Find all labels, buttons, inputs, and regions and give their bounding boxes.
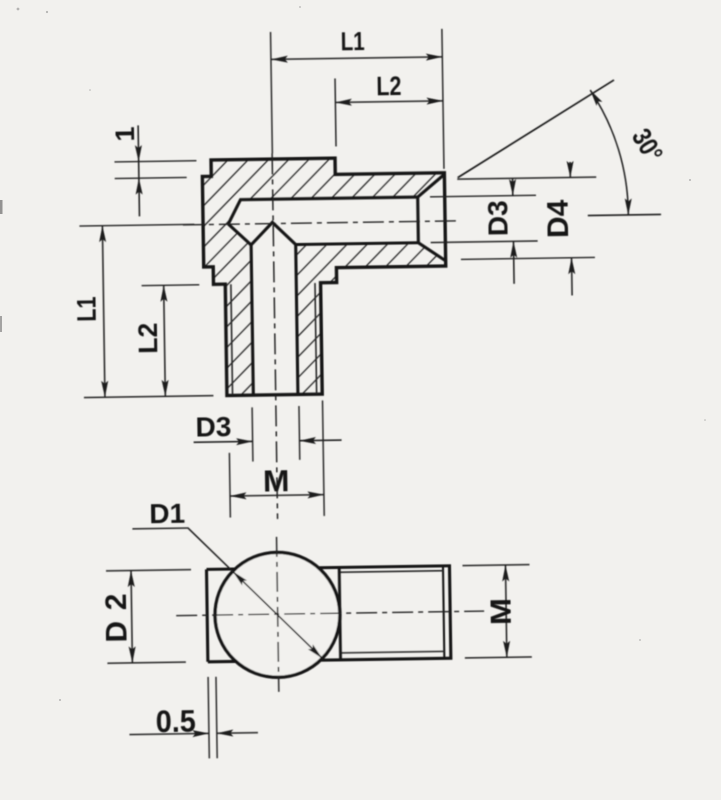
svg-text:1: 1 (110, 126, 140, 141)
vertical centerline upper view (271, 32, 273, 153)
dimension D2 vertical left lower (106, 570, 191, 571)
horizontal centerline lower view (176, 611, 484, 616)
dimension L1 vertical left (79, 224, 194, 226)
dimension L2 vertical left (142, 284, 200, 287)
elbow fitting body outer profile (section view) (202, 157, 447, 396)
dimension D4 vertical right (countersink) (457, 177, 596, 179)
dimension M horizontal below leg (thread) (228, 453, 231, 518)
svg-text:D4: D4 (541, 199, 575, 238)
30 degree horizontal reference line (588, 214, 661, 215)
vertical centerline lower view (277, 537, 279, 692)
lower view body cylinder outline (207, 566, 451, 662)
30 degree seat angle line (456, 80, 615, 178)
vertical bore with drill cone peak (251, 222, 298, 395)
thread minor diameter lines (339, 571, 443, 573)
svg-text:M: M (263, 463, 290, 498)
horizontal centerline upper view (183, 221, 460, 225)
dimension L2 horizontal top (335, 78, 336, 146)
dimension D3 vertical right (bore) (430, 195, 536, 197)
svg-text:D3: D3 (482, 200, 514, 236)
scan speckles (17, 8, 20, 11)
dimension 0.5 bottom left (208, 677, 209, 758)
svg-text:L1: L1 (71, 296, 101, 321)
svg-text:0.5: 0.5 (155, 703, 196, 740)
30 degree dimension arc (590, 90, 628, 216)
svg-text:L2: L2 (133, 323, 163, 354)
external thread minor lines on lower leg (231, 283, 317, 395)
ball sphere circle (214, 552, 341, 679)
svg-text:L2: L2 (376, 71, 401, 101)
svg-text:M: M (485, 598, 517, 625)
dimension D3 horizontal below leg (251, 407, 254, 461)
dimension D1 leader and diameter (132, 526, 322, 661)
dimension L1 horizontal top (442, 29, 444, 169)
dimension M vertical right lower (462, 564, 529, 567)
horizontal bore with cone point and countersink (228, 174, 446, 264)
dimension 1 (step height) top left (114, 161, 196, 162)
hatching section lines upper view (0, 136, 577, 426)
svg-text:D1: D1 (149, 498, 185, 530)
sphere-cylinder tangent line (339, 567, 340, 659)
svg-text:L1: L1 (340, 26, 364, 56)
svg-text:D3: D3 (195, 411, 231, 443)
thread chamfer line right end (443, 566, 444, 658)
